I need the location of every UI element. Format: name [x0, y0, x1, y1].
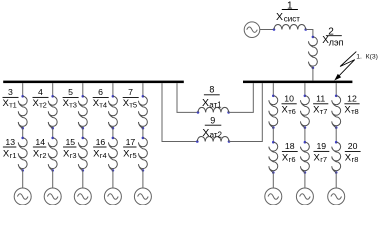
wire: [22, 170, 24, 188]
generator G5: [134, 188, 151, 205]
svg-text:т2: т2: [39, 100, 47, 109]
svg-text:17: 17: [126, 137, 136, 147]
wire: [335, 173, 337, 189]
wire: [82, 83, 84, 96]
wire: [312, 68, 314, 81]
inductor Xt7 (11): [300, 95, 309, 129]
wire: [272, 173, 274, 189]
svg-text:г5: г5: [130, 151, 137, 160]
svg-text:г6: г6: [289, 155, 296, 164]
svg-text:сист: сист: [284, 14, 300, 23]
svg-text:г1: г1: [10, 151, 17, 160]
svg-text:т6: т6: [288, 107, 296, 116]
wire: [304, 83, 306, 96]
svg-text:г8: г8: [352, 155, 359, 164]
label 3/Xt1: [3, 87, 19, 110]
wire: [142, 170, 144, 188]
wire: [82, 170, 84, 188]
inductor Xg2 (14): [48, 137, 57, 172]
wire: [304, 128, 306, 143]
wire: [272, 83, 274, 96]
right busbar: [243, 81, 352, 84]
svg-text:5: 5: [68, 87, 73, 97]
wire: [112, 170, 114, 188]
svg-text:12: 12: [347, 93, 357, 103]
label 4/Xt2: [33, 87, 49, 110]
svg-text:т5: т5: [129, 100, 137, 109]
svg-text:г7: г7: [320, 155, 327, 164]
svg-text:т3: т3: [69, 100, 77, 109]
label 11/Xt7: [313, 93, 328, 116]
inductor Xg1 (13): [18, 137, 27, 172]
inductor Xat2 (9): [196, 137, 230, 143]
svg-text:6: 6: [98, 87, 103, 97]
generator G3: [74, 188, 91, 205]
label 16/Xg4: [93, 137, 107, 160]
svg-text:т1: т1: [9, 100, 17, 109]
wire: [335, 128, 337, 143]
svg-text:т8: т8: [351, 107, 359, 116]
svg-text:г4: г4: [100, 151, 107, 160]
svg-text:X: X: [276, 11, 283, 23]
wire: [52, 83, 54, 96]
label 8/Xat1: [202, 85, 222, 110]
generator G8: [328, 188, 345, 205]
svg-text:14: 14: [35, 137, 45, 147]
wire: [82, 128, 84, 138]
generator G2: [44, 188, 61, 205]
wire: [335, 83, 337, 96]
svg-text:3: 3: [8, 87, 13, 97]
label 13/Xg1: [3, 137, 17, 160]
label 19/Xg7: [314, 141, 330, 164]
wire: [272, 128, 274, 143]
generator G7: [296, 188, 313, 205]
label 5/Xt3: [63, 87, 79, 110]
inductor Xt1 (3): [18, 95, 27, 130]
label 2/Xlep: [322, 27, 343, 48]
wire: [52, 128, 54, 138]
wire: [304, 173, 306, 189]
svg-text:11: 11: [316, 93, 325, 103]
inductor Xg4 (16): [108, 137, 117, 172]
svg-text:18: 18: [285, 141, 295, 151]
svg-text:г2: г2: [40, 151, 47, 160]
wire: [177, 83, 198, 112]
inductor Xt6 (10): [269, 95, 278, 129]
wire: [306, 30, 313, 37]
wire: [22, 128, 24, 138]
svg-text:15: 15: [65, 137, 75, 147]
label 14/Xg2: [33, 137, 47, 160]
svg-text:20: 20: [348, 141, 358, 151]
inductor Xt3 (5): [78, 95, 87, 130]
wire: [52, 170, 54, 188]
label 20/Xg8: [345, 141, 361, 164]
wire: [142, 83, 144, 96]
label 15/Xg3: [63, 137, 77, 160]
svg-text:X: X: [202, 127, 209, 139]
wire: [142, 128, 144, 138]
inductor Xt4 (6): [108, 95, 117, 130]
label 7/Xt5: [123, 87, 139, 110]
svg-text:лэп: лэп: [329, 37, 344, 47]
wire: [229, 83, 254, 112]
svg-text:1. К(3): 1. К(3): [356, 54, 378, 61]
inductor Xt5 (7): [138, 95, 147, 130]
system source GS: [244, 22, 260, 38]
label 17/Xg5: [123, 137, 137, 160]
label 12/Xt8: [344, 93, 359, 116]
label 18/Xg6: [282, 141, 298, 164]
label 10/Xt6: [282, 93, 297, 116]
svg-text:X: X: [202, 97, 209, 109]
svg-text:9: 9: [210, 116, 215, 126]
wire: [112, 128, 114, 138]
svg-text:8: 8: [209, 85, 214, 95]
generator G6: [265, 188, 282, 205]
wire: [229, 83, 262, 141]
svg-text:10: 10: [284, 93, 294, 103]
inductor Xt8 (12): [332, 95, 341, 129]
generator G1: [14, 188, 31, 205]
label 6/Xt4: [93, 87, 109, 110]
svg-text:16: 16: [96, 137, 106, 147]
wire: [162, 83, 197, 141]
label 1/Xsist: [276, 0, 300, 23]
svg-text:т4: т4: [99, 100, 107, 109]
fault arrow K(3): [334, 52, 356, 81]
generator G4: [104, 188, 121, 205]
inductor Xt2 (4): [48, 95, 57, 130]
inductor Xg6 (18): [269, 141, 278, 174]
inductor Xg8 (20): [332, 141, 341, 174]
label 9/Xat2: [202, 116, 222, 140]
wire: [22, 83, 24, 96]
wire: [260, 29, 274, 31]
inductor Xat1 (8): [197, 107, 230, 113]
svg-text:13: 13: [5, 137, 15, 147]
svg-text:19: 19: [316, 141, 326, 151]
inductor Xg5 (17): [138, 137, 147, 172]
svg-text:4: 4: [38, 87, 43, 97]
inductor Xsist (1): [273, 24, 307, 30]
left busbar: [3, 81, 184, 84]
inductor Xg3 (15): [78, 137, 87, 172]
svg-text:ат2: ат2: [210, 130, 223, 139]
wire: [112, 83, 114, 96]
svg-text:ат1: ат1: [209, 101, 222, 110]
svg-text:г3: г3: [70, 151, 77, 160]
svg-text:т7: т7: [320, 107, 328, 116]
svg-text:7: 7: [128, 87, 133, 97]
inductor Xlep (2): [308, 36, 317, 70]
inductor Xg7 (19): [300, 141, 309, 174]
